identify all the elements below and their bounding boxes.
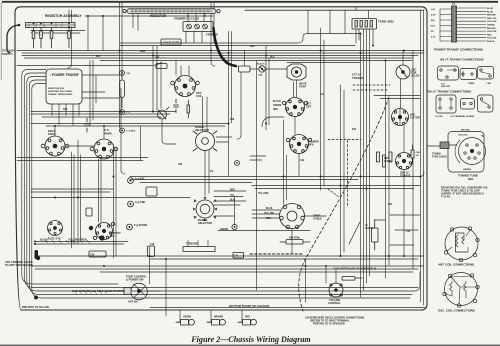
wire vertical x369 — [369, 29, 371, 276]
wire lamp drop 3 — [241, 310, 243, 322]
svg-text:TO ANT TERM BOARD: TO ANT TERM BOARD — [5, 263, 33, 267]
wire vertical x283 — [283, 120, 285, 204]
antenna coil small — [158, 107, 170, 119]
wire det to power links — [295, 117, 299, 177]
resistor assembly board — [26, 23, 76, 28]
resistor R3 on assembly — [50, 23, 53, 48]
svg-text:YELLOW: YELLOW — [264, 213, 275, 215]
dashed shield bottom left of speaker — [250, 253, 302, 255]
wire main horizontal bus line B — [22, 52, 424, 54]
wire horizontal mid-left y117 — [42, 116, 162, 118]
resistor R9 mid left — [86, 208, 92, 216]
box tone coupling — [89, 251, 106, 257]
pilot lamp 1 — [176, 319, 194, 325]
svg-text:BLUE: BLUE — [487, 8, 493, 10]
svg-text:SELECTOR: SELECTOR — [198, 221, 212, 225]
svg-text:R18: R18 — [230, 119, 235, 121]
svg-text:TERM BD: TERM BD — [206, 33, 218, 37]
wire vertical x101 — [100, 159, 102, 222]
tube socket 6Q7 — [396, 153, 413, 170]
wave trap shield — [287, 64, 306, 80]
wire speaker socket leads — [252, 210, 326, 218]
wire horizontal y179 — [130, 179, 358, 181]
wire range selector w1 leads — [216, 137, 232, 142]
volume control — [329, 283, 343, 297]
jack C20 — [120, 71, 125, 76]
wire horizontal y157 left — [17, 157, 148, 159]
svg-text:455 I.F. TRANSF CONNECTIONS: 455 I.F. TRANSF CONNECTIONS — [427, 90, 471, 94]
resistor near osc — [187, 100, 190, 118]
phono switch box — [146, 187, 157, 196]
svg-text:C30: C30 — [178, 164, 183, 166]
wire top right steps — [308, 10, 345, 33]
svg-text:C30: C30 — [90, 255, 95, 257]
wire corner mid — [262, 117, 284, 127]
svg-text:RED: RED — [273, 109, 278, 111]
svg-text:G ◎ GND: G ◎ GND — [135, 201, 146, 204]
wire main horizontal bus line A — [17, 50, 424, 52]
wire vertical x140 — [140, 126, 142, 160]
svg-text:L19 TERMINAL BOARD: L19 TERMINAL BOARD — [450, 115, 475, 118]
svg-text:2ND DET: 2ND DET — [441, 86, 451, 88]
wire y62 continuation — [287, 62, 360, 64]
wire af socket to bus — [103, 126, 105, 139]
svg-text:DET: DET — [306, 105, 312, 109]
wire vertical x420 — [420, 11, 422, 303]
svg-text:GREEN: GREEN — [183, 317, 192, 319]
svg-text:BROWN: BROWN — [461, 130, 470, 132]
wire horizontal y197 left — [31, 197, 190, 199]
wire main horizontal bus line C — [22, 55, 418, 57]
svg-text:BRN WITH TR-YELLOW: BRN WITH TR-YELLOW — [22, 306, 50, 309]
wire vertical x211 — [211, 3, 215, 67]
svg-text:BLK: BLK — [96, 56, 101, 58]
tube socket rectifier — [41, 136, 69, 156]
wire vertical x166 bottom — [165, 259, 167, 316]
svg-text:GREEN: GREEN — [220, 229, 229, 231]
wire vertical x103 — [102, 16, 104, 51]
wire vertical x88 — [87, 16, 89, 51]
svg-text:C18: C18 — [150, 244, 155, 246]
dashed shield around 1st IF — [353, 85, 390, 90]
svg-text:SUPPLY: SUPPLY — [2, 52, 13, 56]
svg-text:P ◎ PHONO: P ◎ PHONO — [134, 224, 147, 227]
wire vertical x161 — [160, 62, 162, 108]
svg-text:YELLOW: YELLOW — [458, 135, 468, 137]
svg-text:CHOKE: CHOKE — [365, 228, 374, 230]
resistor R2 on assembly — [40, 23, 43, 48]
svg-text:CONTROL: CONTROL — [328, 301, 341, 305]
svg-text:BLK: BLK — [270, 57, 275, 59]
wire vertical x122b — [121, 88, 125, 174]
wire vertical x320 — [320, 28, 322, 190]
wire horizontal bus y60 — [100, 60, 412, 62]
dash supply junction dot — [18, 24, 21, 27]
wire vertical x373 — [372, 29, 374, 46]
svg-text:YELLOW: YELLOW — [487, 38, 497, 40]
wire vertical x389 — [388, 100, 390, 265]
terminal board bottom — [183, 240, 215, 252]
wire main horizontal bus line D — [24, 57, 413, 59]
wire horizontal y259 — [150, 258, 418, 260]
wire vertical x71 mid — [71, 152, 73, 248]
page border top — [2, 1, 498, 3]
wire vertical x98 — [98, 159, 100, 222]
page border bottom — [0, 344, 500, 346]
wire vertical x404 low — [403, 170, 405, 256]
wire vertical x122 — [121, 3, 123, 77]
svg-text:T1: T1 — [452, 2, 456, 6]
svg-text:L2 OSC: L2 OSC — [435, 116, 443, 118]
tube socket 6A8 right — [392, 109, 409, 126]
wire horizontal mid-left y126 — [46, 125, 225, 127]
resistor R4 on assembly — [68, 23, 71, 48]
svg-text:BLACK: BLACK — [40, 239, 48, 242]
tube socket electric eye — [48, 221, 63, 236]
range selector wafer 2 — [193, 197, 217, 221]
svg-text:YEL-GRN: YEL-GRN — [258, 193, 269, 195]
svg-text:YELLOW-GREEN: YELLOW-GREEN — [68, 240, 87, 242]
svg-text:RED: RED — [487, 34, 492, 36]
svg-text:BROWN: BROWN — [487, 28, 496, 30]
wire power transf right connectors — [82, 61, 120, 127]
wire vertical x423 — [423, 11, 425, 306]
wire vertical x116 — [115, 148, 117, 256]
wire vertical x404 mid — [403, 126, 405, 152]
svg-text:RESISTOR R14: RESISTOR R14 — [48, 87, 65, 90]
svg-text:77 & PX.: 77 & PX. — [441, 196, 451, 199]
wire vertical x119 — [119, 3, 121, 129]
svg-text:YELLOW: YELLOW — [487, 31, 497, 33]
svg-text:HD I.F. TRANSF CONNECTIONS: HD I.F. TRANSF CONNECTIONS — [440, 58, 484, 62]
tube socket 6K7 det — [282, 98, 307, 117]
wire horizontal y33 left — [31, 32, 80, 34]
tone control and power switch — [124, 283, 147, 300]
wire bus left nest line 5 — [32, 84, 410, 299]
coil circle top right 455KC — [396, 65, 410, 79]
svg-text:TRANSF: TRANSF — [400, 174, 411, 178]
wire vertical x214 — [213, 3, 215, 44]
wire vertical x244 lower — [237, 68, 241, 139]
wire horizontal y241 left — [35, 241, 128, 243]
wire horizontal y189 left — [31, 188, 114, 190]
terminal board top right — [352, 19, 377, 30]
svg-text:GREEN: GREEN — [487, 25, 495, 27]
jack circle mid x237 — [235, 161, 240, 166]
wire vertical x157 — [156, 46, 158, 110]
resistor R1 on assembly — [32, 23, 35, 48]
wire tone control leads — [125, 289, 160, 291]
wire diagonal grommet — [349, 222, 360, 244]
wire vertical x78 — [77, 140, 79, 244]
wire power transf leads — [52, 104, 79, 125]
wire right top horizontals — [374, 96, 420, 99]
cable lacing ticks speaker leads — [45, 240, 107, 294]
wire vertical x360 — [360, 34, 362, 298]
wire bottom frame inner line — [150, 307, 426, 309]
wire vertical x269 — [268, 58, 270, 125]
wire horizontal bus upper line A — [120, 34, 360, 44]
wire osc socket leads — [181, 66, 189, 76]
svg-text:GREEN: GREEN — [273, 105, 282, 107]
dashed arrow to grommet — [328, 189, 339, 197]
wire volume control drop — [335, 270, 337, 284]
svg-text:RED: RED — [230, 190, 235, 192]
wire horizontal mid-left y123 — [31, 123, 228, 125]
svg-text:GREEN: GREEN — [463, 169, 471, 171]
svg-text:GRN: GRN — [140, 51, 145, 53]
wire horizontal y185 right — [252, 185, 420, 187]
svg-text:Figure 2—Chassis Wiring Diagra: Figure 2—Chassis Wiring Diagram — [190, 335, 310, 344]
svg-text:ANT. COIL CONNECTIONS: ANT. COIL CONNECTIONS — [438, 263, 474, 267]
wire trimmer board lower drops — [133, 14, 202, 44]
tube socket output 6F6 — [93, 222, 114, 239]
svg-text:AUDIO: AUDIO — [384, 160, 392, 163]
wire tuning cable lead — [427, 145, 440, 147]
svg-text:C32: C32 — [300, 160, 305, 162]
svg-text:• POWER TRANSF: • POWER TRANSF — [50, 73, 79, 77]
wire bus left nest line 2 — [24, 73, 418, 288]
svg-text:C4A: C4A — [258, 74, 263, 77]
wire horizontal y160 left — [17, 160, 143, 162]
wire horizontal y30 left — [31, 30, 85, 32]
svg-text:TUNING: TUNING — [432, 154, 441, 156]
choke L5 right — [372, 220, 379, 250]
wire 6A8 drop — [399, 109, 401, 126]
wire vertical x400 — [400, 79, 402, 108]
svg-text:BLK: BLK — [230, 200, 235, 202]
wire vertical x231 — [231, 32, 233, 124]
wire vertical x71 — [68, 10, 72, 68]
range selector wafer 1 — [193, 131, 217, 151]
svg-text:40V: 40V — [431, 19, 435, 22]
wire horizontal mid-left y114 — [31, 113, 170, 115]
terminal board trimmers mid-top — [183, 22, 213, 32]
tuning tube diagram — [448, 132, 486, 173]
wire vertical x344 — [343, 90, 345, 252]
resistor R20 speaker area — [280, 240, 310, 245]
svg-text:BLACK: BLACK — [257, 63, 265, 66]
wire bus left nest line 1 — [22, 70, 118, 285]
svg-text:6.3V: 6.3V — [431, 15, 436, 17]
pilot lamp 2 — [207, 319, 225, 325]
svg-text:ELEC EYE: ELEC EYE — [48, 237, 61, 241]
wire horizontal y65 left — [17, 62, 162, 66]
svg-text:AMPL: AMPL — [104, 132, 113, 136]
svg-text:RED: RED — [250, 46, 255, 48]
capacitor C18 bottom left — [148, 246, 155, 257]
wire short horizontals right interior — [250, 156, 420, 245]
svg-text:6F6: 6F6 — [309, 143, 314, 147]
wire lamp drop 1 — [179, 310, 182, 322]
dash supply cable — [7, 25, 19, 53]
svg-text:& POWER SW: & POWER SW — [126, 278, 144, 282]
svg-text:7G8 ELECTR: 7G8 ELECTR — [163, 41, 179, 45]
wire vertical x286 — [286, 155, 288, 200]
wire bus left nest line 4 — [29, 80, 412, 295]
wire vertical x153 — [152, 46, 154, 112]
dashed vertical shield line — [347, 140, 349, 207]
wire vertical x413 — [412, 51, 414, 270]
jack C low — [120, 128, 125, 133]
wire horizontal y188 right — [255, 188, 414, 190]
svg-text:SELECTOR: SELECTOR — [195, 128, 209, 132]
svg-text:C POLARIZED (LINE OF CORD SHIE: C POLARIZED (LINE OF CORD SHIELD) — [333, 268, 376, 271]
wire vertical x149 bottom — [149, 247, 151, 284]
resistor near volume control — [342, 277, 362, 281]
wire horizontal y269 — [35, 268, 418, 270]
small box right edge L13 — [239, 66, 251, 72]
resistor bank near 6Q7 — [377, 152, 393, 167]
wire horizontal y244 left — [35, 243, 124, 245]
svg-text:BOTTOM FRONT OF CHASSIS: BOTTOM FRONT OF CHASSIS — [229, 304, 269, 308]
455 IF transf diagram boxes — [436, 95, 493, 113]
svg-text:YEL: YEL — [230, 195, 235, 197]
wire vertical x80 — [80, 155, 82, 240]
wire horizontal bus upper line B — [120, 45, 355, 47]
svg-text:COIL: COIL — [196, 94, 203, 98]
jack C mid — [120, 110, 125, 115]
resistor board top strip — [123, 9, 220, 17]
svg-text:6.3V: 6.3V — [431, 37, 436, 39]
wire vertical x74 mid — [73, 155, 75, 244]
wire speaker socket drop — [291, 229, 293, 255]
svg-text:C27: C27 — [320, 94, 325, 96]
svg-text:MAIN SPEAKER AND FIELD LEADS T: MAIN SPEAKER AND FIELD LEADS TO SPKR — [72, 290, 124, 293]
dashed shield mid — [328, 139, 361, 141]
svg-text:C .5 MFD: C .5 MFD — [126, 131, 136, 133]
wire vertical x244 — [244, 51, 246, 68]
svg-text:TUBE CABLE: TUBE CABLE — [432, 156, 447, 159]
svg-text:BLUE: BLUE — [266, 208, 273, 210]
capacitor C44 near 6Q7 — [411, 145, 414, 163]
ant coil connection diagram — [444, 227, 479, 262]
wire horizontal y176 — [130, 172, 424, 177]
svg-text:RESISTOR ASSEMBLY: RESISTOR ASSEMBLY — [45, 14, 82, 18]
svg-text:7.5M: 7.5M — [486, 83, 491, 85]
wire vertical x265 — [265, 46, 267, 131]
wire horizontal y192 left — [31, 191, 110, 193]
wire vertical x403 top — [402, 51, 404, 66]
wire vertical x228 — [228, 32, 230, 177]
wire vertical x326 bottom — [325, 266, 327, 283]
svg-text:CABLE: CABLE — [313, 217, 322, 221]
svg-text:A ◎ ANT: A ◎ ANT — [135, 178, 145, 181]
svg-text:POWER TRANSF CONNECTIONS: POWER TRANSF CONNECTIONS — [434, 48, 483, 52]
wire thin after shield box — [250, 68, 287, 70]
svg-text:R12: R12 — [352, 129, 357, 131]
phono jack GND — [127, 224, 133, 230]
svg-text:RED: RED — [266, 218, 271, 220]
svg-text:TRIMMERS C2,C3,C21: TRIMMERS C2,C3,C21 — [174, 18, 200, 21]
solder blob below output socket — [99, 235, 104, 240]
cable knot left bus — [35, 250, 39, 259]
wire vertical x363 — [363, 29, 365, 290]
svg-text:R20 470M: R20 470M — [289, 237, 300, 240]
wire trimmer board drops — [188, 14, 204, 22]
svg-text:115V: 115V — [430, 26, 436, 28]
tube socket AF 6T7 — [90, 139, 118, 159]
wire lamp drop 2 — [210, 310, 212, 322]
wire socket row links — [65, 145, 94, 147]
solder blob left of output socket — [89, 226, 93, 230]
svg-text:6F6: 6F6 — [110, 234, 115, 238]
dashed tuning drive cable arc — [299, 97, 389, 311]
svg-text:TERM: TERM — [468, 83, 474, 85]
wire vertical x305 bottom — [305, 259, 307, 302]
wire cable top right thick — [214, 28, 237, 66]
svg-text:RED-YEL: RED-YEL — [487, 18, 497, 20]
wire horizontal y16 top left — [85, 15, 213, 17]
wire range selector right leads — [214, 191, 310, 231]
small box 7G8 — [161, 39, 181, 45]
svg-text:BROWN: BROWN — [487, 15, 496, 17]
tube socket 6F6 power — [286, 135, 311, 154]
wire osc coil drop — [162, 119, 176, 144]
svg-text:ANT SW: ANT SW — [128, 301, 138, 304]
chassis inner top line — [245, 9, 424, 11]
phono jack G — [128, 201, 134, 207]
svg-text:MOUNTED ON POWER: MOUNTED ON POWER — [48, 91, 72, 93]
wire vertical x176 — [175, 61, 177, 76]
wire bus left nest line 3 — [27, 77, 420, 292]
capacitor near osc — [174, 99, 179, 113]
wire horizontal y256 — [35, 255, 424, 257]
wire vertical x69 — [68, 10, 70, 27]
svg-text:TRANSF TERM BOARD: TRANSF TERM BOARD — [48, 93, 73, 96]
wire vertical x340 — [340, 85, 342, 256]
wire vertical x113 — [113, 145, 115, 258]
svg-text:TERM BRD: TERM BRD — [186, 244, 198, 246]
svg-text:C40: C40 — [406, 230, 411, 233]
svg-text:TRANSF: TRANSF — [352, 76, 364, 80]
small box C15 — [156, 64, 167, 69]
HD IF transf diagram boxes — [438, 66, 494, 80]
power transformer connection diagram T1 — [440, 6, 486, 42]
chassis outline frame — [15, 7, 427, 310]
svg-text:OSC. COIL CONNECTIONS: OSC. COIL CONNECTIONS — [438, 309, 475, 313]
svg-text:RED: RED — [245, 317, 250, 319]
svg-text:6E5: 6E5 — [468, 177, 474, 181]
power transformer T1 box — [46, 69, 82, 104]
wire horizontal y272 — [100, 271, 413, 273]
jack circle right of wafer — [232, 224, 237, 229]
speaker socket — [280, 204, 305, 229]
wire horizontal y182 — [140, 182, 252, 184]
wire vertical x385 — [385, 61, 387, 279]
svg-text:C38: C38 — [155, 57, 160, 59]
tube socket oscillator 6A8 — [171, 76, 200, 97]
wire wave trap to det — [294, 80, 297, 97]
wire vertical x256 — [256, 61, 258, 291]
osc coil connection diagram — [443, 273, 479, 308]
svg-text:PERTAIN TO 7G SPEAKER: PERTAIN TO 7G SPEAKER — [313, 323, 345, 326]
svg-text:YELLOW: YELLOW — [487, 21, 497, 23]
wire rect socket to bus — [54, 126, 56, 136]
svg-text:BLACK: BLACK — [273, 100, 281, 103]
svg-text:RESISTOR: RESISTOR — [150, 14, 167, 18]
svg-text:SOCK: SOCK — [48, 132, 56, 136]
choke L16 — [233, 253, 244, 259]
svg-text:BLUE: BLUE — [487, 11, 493, 13]
capacitor C20 — [85, 118, 90, 132]
phono jack A — [128, 178, 134, 184]
svg-text:R14: R14 — [63, 108, 68, 111]
wire horizontal y266 — [31, 265, 424, 267]
svg-text:(6-12V): (6-12V) — [411, 75, 420, 78]
wire horizontal mid-left y111 — [31, 111, 176, 113]
svg-text:BLACK: BLACK — [487, 40, 495, 43]
